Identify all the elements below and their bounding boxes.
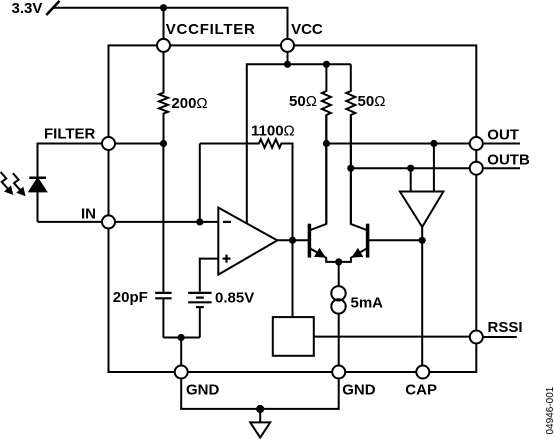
svg-text:GND: GND: [186, 382, 220, 399]
svg-text:VCC: VCC: [291, 21, 323, 38]
svg-text:CAP: CAP: [405, 382, 437, 399]
svg-text:OUTB: OUTB: [487, 151, 530, 168]
svg-text:200Ω: 200Ω: [171, 95, 207, 112]
svg-text:GND: GND: [342, 382, 376, 399]
svg-text:0.85V: 0.85V: [215, 289, 254, 306]
svg-text:IN: IN: [81, 206, 96, 223]
svg-text:04946-001: 04946-001: [545, 386, 554, 434]
svg-text:OUT: OUT: [487, 127, 519, 144]
svg-text:VCCFILTER: VCCFILTER: [166, 21, 256, 38]
svg-text:FILTER: FILTER: [44, 125, 96, 142]
svg-text:50Ω: 50Ω: [289, 93, 317, 110]
svg-text:3.3V: 3.3V: [12, 0, 43, 17]
svg-text:5mA: 5mA: [351, 295, 384, 312]
svg-text:50Ω: 50Ω: [358, 93, 386, 110]
svg-text:20pF: 20pF: [113, 289, 148, 306]
svg-text:1100Ω: 1100Ω: [251, 122, 295, 139]
svg-text:RSSI: RSSI: [488, 319, 523, 336]
